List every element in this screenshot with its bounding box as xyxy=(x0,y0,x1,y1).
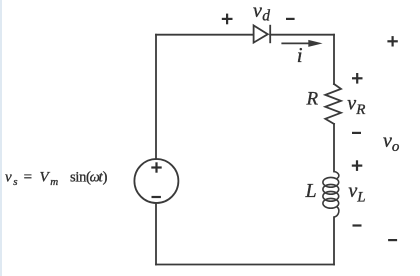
svg-text:vs=Vmsin(ωt): vs=Vmsin(ωt) xyxy=(5,169,108,188)
svg-text:vd: vd xyxy=(253,0,270,25)
svg-text:vL: vL xyxy=(348,180,365,206)
wire left lower (bottom corner to source) xyxy=(155,203,157,265)
diode D1 xyxy=(254,25,271,43)
wire left upper (source to top corner) xyxy=(155,35,157,159)
wire top-right (diode cathode to right corner) xyxy=(270,34,334,36)
label + (inductor top) xyxy=(352,160,363,171)
label + (resistor top) xyxy=(352,73,363,84)
inductor L1 coil xyxy=(323,172,339,218)
label - (diode cathode) xyxy=(286,18,295,20)
wire right middle (resistor to inductor) xyxy=(333,124,335,172)
current arrow i xyxy=(281,40,322,47)
svg-text:vo: vo xyxy=(383,130,400,155)
svg-text:R: R xyxy=(306,89,319,110)
label - (vo bottom) xyxy=(388,239,397,241)
resistor R1 zigzag xyxy=(325,84,341,124)
wire top-left (source to diode anode) xyxy=(156,34,254,36)
source VS circle xyxy=(134,159,178,203)
wire right upper (corner to resistor) xyxy=(333,35,335,84)
label - (resistor bottom) xyxy=(352,132,361,134)
label + (diode anode) xyxy=(222,14,233,25)
label + (vo top) xyxy=(387,36,397,46)
label - (inductor bottom) xyxy=(353,224,362,226)
label - (source bottom) xyxy=(152,196,161,198)
svg-text:i: i xyxy=(297,43,303,67)
wire right lower (inductor to bottom corner) xyxy=(333,217,335,264)
label + (source top) xyxy=(151,162,161,172)
svg-text:vR: vR xyxy=(347,93,365,119)
svg-text:L: L xyxy=(305,180,317,202)
edge tint xyxy=(0,0,2,276)
wire bottom xyxy=(156,264,334,266)
